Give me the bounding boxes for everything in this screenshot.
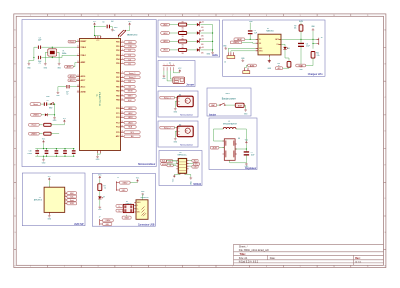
svg-text:21: 21 bbox=[77, 91, 79, 93]
svg-text:Reset: Reset bbox=[32, 124, 37, 127]
net label VBAT at switch bbox=[209, 104, 217, 107]
svg-text:22pF: 22pF bbox=[38, 40, 42, 42]
svg-text:R5: R5 bbox=[182, 38, 184, 40]
svg-text:XTAL1: XTAL1 bbox=[81, 54, 86, 57]
junction bbox=[312, 39, 313, 40]
svg-text:14: 14 bbox=[122, 99, 124, 101]
net label LED3 bbox=[124, 116, 136, 119]
svg-text:5: 5 bbox=[165, 15, 166, 17]
ground left of crystal bbox=[28, 63, 31, 66]
ground servo 1 bbox=[174, 108, 177, 111]
svg-text:19: 19 bbox=[77, 75, 79, 77]
svg-text:15: 15 bbox=[122, 107, 124, 109]
svg-text:AVR ISP: AVR ISP bbox=[74, 223, 84, 226]
svg-text:8: 8 bbox=[266, 266, 267, 268]
svg-text:12: 12 bbox=[122, 89, 124, 91]
svg-text:330: 330 bbox=[182, 28, 184, 30]
junction bbox=[56, 156, 57, 157]
svg-text:2.2uF: 2.2uF bbox=[306, 46, 310, 48]
junction ALIM bbox=[250, 39, 251, 40]
wire R6 to D5 bbox=[187, 49, 197, 51]
junction bbox=[33, 57, 34, 58]
resistor R11 10k bbox=[299, 25, 303, 31]
svg-text:U4: U4 bbox=[238, 138, 240, 140]
wire R16 to STAT label bbox=[283, 67, 289, 68]
svg-text:J7: J7 bbox=[99, 217, 101, 219]
wire LED1 to resistor bbox=[169, 24, 178, 26]
wire D4 to rail bbox=[200, 40, 212, 42]
wire LED3 to resistor bbox=[169, 40, 178, 42]
net label ALIM at switch bbox=[235, 103, 244, 107]
resistor R2 330 bbox=[179, 23, 187, 26]
wire D3 to rail bbox=[200, 32, 212, 34]
power VCC pullup bbox=[63, 120, 65, 123]
svg-text:4: 4 bbox=[131, 266, 132, 268]
wire decoupling top rail bbox=[35, 144, 73, 149]
svg-text:MASSES-SGD: MASSES-SGD bbox=[127, 33, 138, 36]
svg-text:11: 11 bbox=[122, 85, 124, 87]
svg-text:J2: J2 bbox=[169, 62, 171, 64]
svg-text:8: 8 bbox=[266, 15, 267, 17]
svg-text:F: F bbox=[384, 198, 385, 200]
net label Reset at RESET pin bbox=[68, 40, 76, 43]
net label VBAT bbox=[296, 64, 306, 67]
wire Reset label to RESET pin bbox=[76, 41, 77, 43]
net label AREF bbox=[65, 65, 74, 68]
power button group box bbox=[207, 88, 251, 116]
net label LED2 bbox=[124, 112, 136, 115]
svg-text:ALIM: ALIM bbox=[237, 38, 242, 41]
wire C3 left to junction bbox=[34, 47, 38, 57]
svg-text:R9: R9 bbox=[294, 25, 296, 27]
net label GND at J7 bbox=[103, 223, 112, 226]
resistor R1 10k bbox=[44, 123, 51, 126]
wire ALIM to U4 bbox=[219, 147, 224, 149]
U1 right pin names and numbers bbox=[116, 41, 124, 138]
svg-text:1uF: 1uF bbox=[254, 32, 257, 34]
wire R12 to VBAT label bbox=[306, 58, 313, 65]
junction VCC out bbox=[246, 148, 247, 149]
wire stubs to grounds bbox=[29, 58, 59, 63]
LED D6 charge status bbox=[283, 47, 286, 50]
junction reset net bbox=[50, 104, 51, 105]
ground NRF24 bbox=[189, 177, 192, 180]
capacitor C14 100nF bbox=[72, 150, 76, 151]
svg-text:AGND: AGND bbox=[81, 91, 87, 94]
wire U2 to ground bbox=[268, 57, 270, 59]
junction bbox=[73, 148, 74, 149]
wire shield gnd stub bbox=[142, 195, 144, 200]
IC U3 NRF24L01 body bbox=[178, 159, 186, 174]
IC U5 usb protection body bbox=[123, 204, 133, 212]
servo 2 group box bbox=[158, 121, 198, 147]
svg-text:PB1: PB1 bbox=[116, 86, 119, 88]
capacitor C1 22pF bbox=[37, 56, 40, 59]
net label MISO at U3 bbox=[193, 163, 199, 166]
net label USB5V at J1 bbox=[120, 181, 131, 184]
svg-text:ADC7: ADC7 bbox=[81, 79, 86, 82]
capacitor C5 1uF bbox=[248, 30, 253, 31]
capacitor C6 2.2uF bbox=[298, 43, 304, 44]
svg-text:MISO: MISO bbox=[128, 96, 133, 98]
svg-text:22: 22 bbox=[77, 79, 79, 81]
power VCC right of C4 bbox=[129, 23, 131, 26]
net label D+ at U5 bbox=[116, 209, 123, 212]
svg-text:NRF24L01+: NRF24L01+ bbox=[178, 154, 187, 156]
svg-text:M2: M2 bbox=[179, 124, 181, 126]
net label Servo_2 bbox=[124, 76, 140, 79]
svg-text:PC1: PC1 bbox=[116, 113, 119, 115]
svg-text:Jumper: Jumper bbox=[186, 84, 194, 87]
connector J7 pins bbox=[100, 219, 103, 225]
wire to R3 bbox=[39, 133, 42, 135]
net label SCK at J3 bbox=[67, 195, 77, 198]
svg-text:LED: LED bbox=[201, 44, 204, 46]
wire U3 to ground bbox=[185, 175, 191, 177]
svg-text:TP1: TP1 bbox=[112, 30, 115, 32]
net label D5 bbox=[124, 62, 135, 65]
wire D2 to rail bbox=[200, 24, 212, 26]
wire to RESET bbox=[76, 41, 77, 43]
svg-text:R4: R4 bbox=[182, 30, 184, 32]
svg-text:5: 5 bbox=[165, 266, 166, 268]
resistor R7 1k bbox=[98, 184, 102, 191]
net label Reset at button bbox=[30, 103, 41, 106]
net label ADC7 bbox=[68, 79, 76, 82]
wire R7 to D7 bbox=[99, 191, 101, 197]
svg-text:VBUS: VBUS bbox=[137, 202, 141, 204]
svg-text:D6: D6 bbox=[288, 48, 290, 50]
svg-text:Reset: Reset bbox=[33, 103, 38, 106]
svg-text:J4: J4 bbox=[224, 61, 226, 63]
svg-text:KiCad E.D.A. 8.0.2: KiCad E.D.A. 8.0.2 bbox=[239, 260, 259, 263]
U3 pins bbox=[176, 161, 188, 175]
svg-text:Servo-moteur: Servo-moteur bbox=[180, 114, 193, 117]
net label RXD bbox=[124, 41, 136, 44]
wire R3 right bbox=[51, 133, 59, 135]
wire VCC to solder jumper bbox=[126, 26, 129, 31]
LED D7 power indicator bbox=[98, 196, 101, 199]
svg-text:Chargeur LiPo: Chargeur LiPo bbox=[308, 73, 323, 76]
capacitor C13 100nF bbox=[63, 150, 67, 151]
junction bbox=[54, 104, 55, 105]
net label D8 bbox=[124, 80, 135, 83]
svg-text:17: 17 bbox=[122, 116, 124, 118]
svg-text:J8: J8 bbox=[142, 195, 144, 197]
junction bbox=[43, 156, 44, 157]
LED D5 bbox=[197, 48, 200, 51]
ground jumper bbox=[163, 75, 166, 78]
wire jumper to AGND bbox=[118, 36, 120, 38]
svg-text:330: 330 bbox=[182, 44, 184, 46]
wire C4 to GND bbox=[110, 27, 112, 29]
wire AREF pin to label bbox=[73, 63, 77, 67]
wire BATT to C6 bbox=[300, 39, 302, 42]
svg-text:RXD: RXD bbox=[128, 42, 133, 44]
svg-text:29: 29 bbox=[77, 40, 79, 42]
svg-text:18: 18 bbox=[77, 85, 79, 87]
wire SW1 to ALIM label bbox=[225, 104, 235, 106]
resistor R6 330 bbox=[179, 48, 187, 51]
svg-text:11: 11 bbox=[367, 15, 369, 17]
ground USB LED bbox=[98, 206, 101, 209]
svg-text:M1: M1 bbox=[179, 94, 181, 96]
junction bbox=[212, 32, 213, 33]
junction bbox=[300, 39, 301, 40]
wire LED2 to resistor bbox=[169, 32, 178, 34]
wire J2 pin3 bbox=[170, 71, 173, 79]
svg-text:LED: LED bbox=[201, 36, 204, 38]
capacitor C4 100nF bbox=[107, 25, 108, 29]
svg-text:VCC: VCC bbox=[96, 40, 99, 42]
resistor R5 330 bbox=[179, 40, 187, 43]
svg-text:PC3: PC3 bbox=[116, 122, 119, 124]
svg-text:Rev:: Rev: bbox=[355, 257, 360, 260]
svg-text:10uF: 10uF bbox=[251, 155, 255, 157]
net label D3 bbox=[124, 54, 135, 57]
crystal Y1 bbox=[48, 49, 57, 56]
svg-text:10k: 10k bbox=[294, 28, 297, 30]
ground below crystal right bbox=[58, 63, 61, 66]
wire U3 to VCC down bbox=[174, 175, 180, 177]
wire C7 to ground bbox=[245, 155, 247, 160]
svg-text:PD0: PD0 bbox=[116, 42, 119, 44]
capacitor C7 10uF bbox=[244, 151, 249, 152]
net label ACK bbox=[275, 67, 282, 70]
U4 pin marks bbox=[225, 141, 234, 158]
svg-text:bouton: bouton bbox=[209, 113, 217, 116]
wire USB5V to EN bbox=[242, 41, 256, 44]
wire to R12 bbox=[312, 44, 314, 49]
motor M1 servo body bbox=[177, 96, 193, 107]
net label TXD bbox=[124, 45, 136, 48]
svg-text:Title:: Title: bbox=[240, 252, 246, 256]
power VCC at J1 bbox=[137, 179, 139, 182]
U1 left pin names bbox=[77, 40, 87, 94]
net label Servo_1 bbox=[160, 96, 175, 99]
wire cap C10 stubs bbox=[36, 149, 38, 157]
wire R4 to D3 bbox=[187, 32, 197, 34]
svg-text:D5: D5 bbox=[202, 47, 204, 49]
svg-text:2.2k: 2.2k bbox=[317, 55, 320, 57]
svg-text:LED: LED bbox=[201, 27, 204, 29]
wire Reset to C6 bbox=[41, 103, 44, 105]
net label ALIM at U2 bbox=[234, 38, 245, 41]
svg-text:D4: D4 bbox=[202, 39, 204, 41]
svg-text:PB4: PB4 bbox=[116, 99, 119, 102]
svg-text:2: 2 bbox=[64, 266, 65, 268]
wire top to C5 bbox=[249, 23, 251, 30]
wires U3 left labels bbox=[166, 161, 176, 166]
svg-text:PC5: PC5 bbox=[116, 132, 119, 134]
wire C2 to ground bbox=[58, 87, 66, 92]
ground charger mid bbox=[241, 59, 244, 62]
resistor R4 330 bbox=[179, 32, 187, 35]
junction bbox=[46, 156, 47, 157]
svg-text:C1: C1 bbox=[39, 63, 41, 65]
svg-text:Bouton power: Bouton power bbox=[222, 98, 236, 101]
net label USB5V pullup bbox=[29, 132, 40, 135]
NRF24 group box bbox=[159, 151, 202, 186]
wire LED4 to resistor bbox=[169, 49, 178, 51]
net label D4 bbox=[124, 58, 135, 61]
svg-text:1: 1 bbox=[30, 266, 31, 268]
switch SW2 reset button bbox=[51, 104, 52, 105]
net label Reset at J3 bbox=[67, 199, 77, 202]
svg-text:VBAT: VBAT bbox=[211, 104, 215, 107]
U2 pins bbox=[256, 39, 281, 57]
net label Reset pullup bbox=[29, 123, 40, 126]
svg-text:20: 20 bbox=[77, 61, 79, 63]
regulator group box bbox=[209, 118, 257, 170]
svg-text:21: 21 bbox=[122, 135, 124, 137]
ground below U1 bbox=[96, 155, 99, 158]
net label CSN at U3 bbox=[167, 160, 173, 163]
capacitor C2 100nF bbox=[65, 85, 68, 88]
junction bbox=[212, 41, 213, 42]
svg-text:PD2: PD2 bbox=[116, 50, 119, 52]
svg-text:SRN4018TA4R7M: SRN4018TA4R7M bbox=[223, 122, 237, 125]
junction bbox=[56, 148, 57, 149]
svg-text:LED: LED bbox=[201, 53, 204, 55]
svg-text:C2: C2 bbox=[66, 94, 68, 96]
power VCC NRF24 bbox=[173, 175, 175, 178]
svg-text:MAX1811: MAX1811 bbox=[266, 30, 273, 33]
net label CSN2 at U3 bbox=[192, 165, 198, 168]
ground regulator bbox=[245, 163, 248, 166]
net label USB5V at diode bbox=[31, 113, 42, 116]
svg-text:J6: J6 bbox=[321, 37, 323, 39]
wire XTAL1 net bbox=[41, 55, 77, 57]
diode D1 bbox=[45, 113, 47, 116]
microcontroller group box bbox=[22, 20, 156, 167]
AVR ISP group box bbox=[22, 173, 85, 226]
net label IRQ at U3 bbox=[192, 159, 198, 162]
net label MISO bbox=[124, 95, 136, 98]
wire U5 to USB5V label bbox=[126, 215, 128, 216]
net label MISO at J3 bbox=[67, 192, 77, 195]
wire inductor loop bbox=[214, 129, 247, 141]
ground below C2 bbox=[57, 91, 60, 94]
wire VCC to R7 bbox=[99, 179, 101, 184]
svg-text:LEDs: LEDs bbox=[212, 54, 219, 57]
svg-text:330: 330 bbox=[182, 36, 184, 38]
svg-text:Servo_1: Servo_1 bbox=[164, 96, 172, 99]
U1 bottom pins bbox=[98, 151, 101, 154]
wire button net vertical bbox=[48, 104, 55, 116]
svg-text:RESET: RESET bbox=[81, 41, 88, 43]
svg-text:9: 9 bbox=[300, 266, 301, 268]
svg-text:10: 10 bbox=[333, 266, 335, 268]
wire R5 to D4 bbox=[187, 40, 197, 42]
svg-text:PC2: PC2 bbox=[116, 117, 119, 119]
svg-text:19: 19 bbox=[122, 125, 124, 127]
svg-text:PD3: PD3 bbox=[116, 55, 119, 57]
svg-text:AVCC: AVCC bbox=[81, 85, 87, 88]
resistor R3 10k bbox=[44, 132, 51, 135]
svg-text:Microcontrôleur: Microcontrôleur bbox=[138, 162, 155, 166]
connector J8 USB-MICRO body bbox=[136, 200, 148, 220]
svg-text:PB3: PB3 bbox=[116, 96, 119, 98]
svg-text:R2: R2 bbox=[182, 22, 184, 24]
wire D6 to R16 bbox=[285, 50, 289, 62]
svg-text:10: 10 bbox=[122, 80, 124, 82]
junction VCC bbox=[94, 26, 95, 27]
wire C6 to ground bbox=[300, 47, 302, 65]
svg-text:Reset: Reset bbox=[70, 40, 75, 43]
svg-text:7: 7 bbox=[232, 266, 233, 268]
svg-text:PD4: PD4 bbox=[116, 58, 119, 61]
wire BATT to +BATT power bbox=[312, 31, 314, 39]
ground AVR ISP bbox=[48, 215, 51, 218]
svg-text:PC4: PC4 bbox=[116, 126, 119, 129]
J8 shield hatch bbox=[142, 207, 147, 217]
connector J2 pins bbox=[164, 67, 174, 71]
title block border lines bbox=[234, 244, 384, 265]
svg-text:SW2: SW2 bbox=[49, 107, 53, 109]
wires U5 to J8 bbox=[133, 206, 136, 209]
ground charger left bbox=[224, 47, 227, 50]
ground power button bbox=[244, 109, 247, 112]
svg-text:PB0: PB0 bbox=[116, 81, 119, 83]
power VCC above U1 bbox=[94, 23, 96, 26]
svg-text:D2: D2 bbox=[202, 22, 204, 24]
resistor R12 2.2k bbox=[311, 52, 315, 59]
wire ADC6 bbox=[75, 75, 78, 77]
wire switch frame to ground bbox=[244, 106, 246, 109]
net label LED4 bbox=[124, 121, 136, 124]
net label ALIM at regulator bbox=[210, 146, 219, 149]
connector J6 battery pins bbox=[317, 38, 319, 45]
svg-text:File: B01b_robot.kicad_sch: File: B01b_robot.kicad_sch bbox=[239, 249, 270, 252]
USB connector group box bbox=[92, 173, 155, 226]
svg-text:C6: C6 bbox=[47, 100, 49, 102]
net label ADC6 bbox=[68, 75, 76, 78]
wire USB5V to VCC bbox=[130, 182, 137, 184]
wire USB5V to D1 bbox=[41, 114, 44, 116]
svg-text:USB5V: USB5V bbox=[233, 42, 240, 44]
LED D3 bbox=[197, 31, 200, 34]
wire to R1 bbox=[39, 124, 42, 126]
wires J4 to SELI SELV bbox=[228, 48, 255, 52]
wire BATT rail bbox=[281, 38, 317, 40]
junction bbox=[52, 57, 53, 58]
svg-text:ALIM: ALIM bbox=[250, 64, 255, 67]
svg-text:F: F bbox=[14, 198, 15, 200]
svg-text:PD7: PD7 bbox=[116, 77, 119, 79]
junction bbox=[212, 49, 213, 50]
svg-text:USB5V: USB5V bbox=[31, 133, 38, 135]
wire ADC7 bbox=[75, 79, 78, 81]
net label MOSI bbox=[124, 90, 136, 93]
svg-text:18: 18 bbox=[122, 121, 124, 123]
wire R11 stubs bbox=[300, 23, 302, 40]
svg-text:ATmega328PB-A: ATmega328PB-A bbox=[99, 91, 102, 105]
junction bbox=[52, 47, 53, 48]
svg-text:Connecteur USB: Connecteur USB bbox=[138, 224, 155, 227]
power GND flag battery bbox=[312, 28, 315, 31]
svg-text:ALIM: ALIM bbox=[213, 146, 218, 149]
svg-text:PC0: PC0 bbox=[116, 108, 119, 110]
ground below reset button bbox=[53, 117, 56, 120]
net label MOSI at U3 bbox=[161, 163, 167, 166]
capacitor C12 100nF bbox=[55, 150, 59, 151]
net label CE at U3 bbox=[167, 164, 173, 167]
servo 1 group box bbox=[158, 91, 198, 117]
wire D5 to rail bbox=[200, 49, 212, 51]
power VCC AVR ISP bbox=[48, 178, 50, 181]
ground bars below U2 bbox=[268, 60, 271, 63]
